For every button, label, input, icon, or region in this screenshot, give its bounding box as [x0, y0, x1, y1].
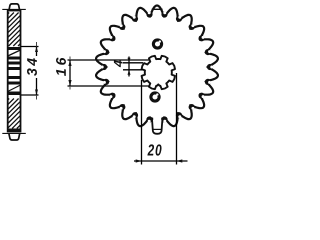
side view hatching lower plate [8, 99, 21, 129]
dimension 34 dimension line upper stub [36, 47, 38, 57]
dimension 34 extension line top [21, 46, 39, 48]
bottom tooth gap deep U [153, 118, 161, 132]
tooth valley shading blobs [146, 11, 152, 17]
dimension 16 extension line bottom [68, 85, 153, 87]
dimension 20 arrowhead right [177, 159, 183, 162]
dimension 34 arrowhead top [35, 47, 38, 53]
top hole [153, 40, 161, 48]
side view hub partial hatch diagonals [8, 50, 21, 92]
spline bore [142, 56, 175, 89]
side view bottom tooth cap [9, 134, 20, 140]
dimension 34 dim line overshoot bottom [36, 95, 38, 100]
dimension 34 text [27, 58, 37, 76]
20 dim extension line left [141, 80, 143, 165]
dimension 16 dim line overshoot top [69, 57, 71, 61]
dimension 4 extension line bottom [123, 69, 144, 71]
side view bottom pitch line [2, 132, 26, 134]
top tooth chord line [152, 8, 163, 10]
dimension 20 arrowhead left [136, 159, 142, 162]
side view hub spline bars [8, 47, 21, 50]
side view body rectangle [8, 11, 21, 132]
dimension 34 arrowhead bottom [35, 90, 38, 96]
dimension 16 extension line top [68, 59, 151, 61]
dimension 16 dimension line [69, 60, 71, 86]
dimension 16 arrowhead top [68, 60, 71, 66]
dimension 16 text [56, 58, 66, 76]
dimension 34 dimension line lower stub [36, 78, 38, 95]
sprocket gear outline [96, 6, 218, 127]
dimension 16 arrowhead bottom [68, 80, 71, 86]
dimension 4 arrowhead upper [128, 58, 131, 63]
dimension 4 text [114, 60, 123, 67]
dimension 16 dim line overshoot bottom [69, 86, 71, 90]
dimension 4 arrowhead lower [128, 70, 131, 75]
dimension 4 dimension line [128, 57, 130, 77]
side view hatching upper plate [8, 13, 21, 47]
side view top tooth cap [9, 4, 20, 11]
dimension 20 dimension line [134, 160, 188, 162]
dimension 20 text [147, 144, 161, 155]
20 dim extension line right [176, 73, 178, 165]
side view top pitch line [2, 8, 26, 10]
bottom hole [151, 93, 159, 101]
dimension 34 dim line overshoot top [36, 42, 38, 47]
dimension 34 extension line bottom [21, 94, 39, 96]
dimension 4 extension line top [123, 62, 143, 64]
